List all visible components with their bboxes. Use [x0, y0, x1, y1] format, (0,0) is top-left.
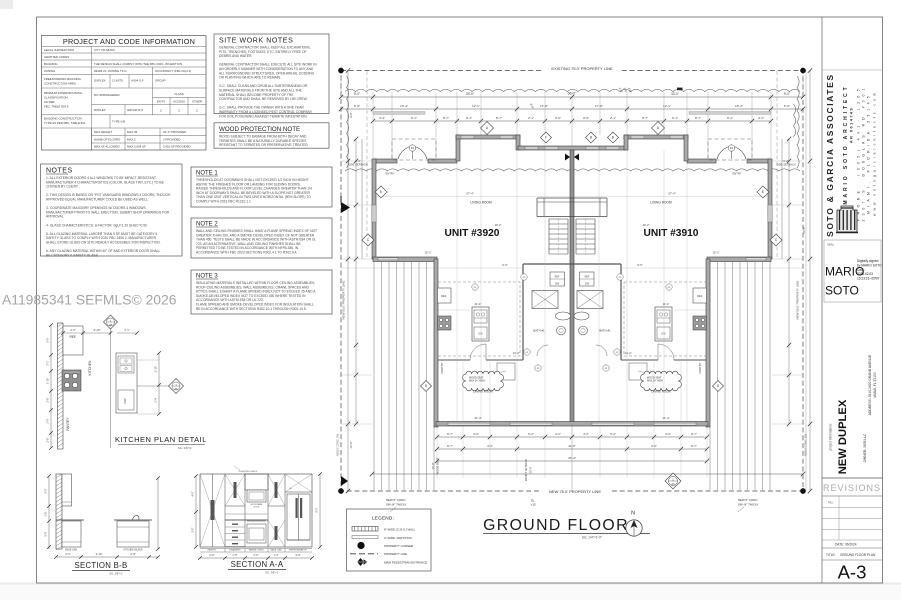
svg-text:REVISIONS: REVISIONS	[823, 483, 881, 493]
svg-text:12'-1": 12'-1"	[472, 104, 480, 108]
section bb bottom dim	[56, 556, 158, 558]
svg-text:CITY OF MIAMI: CITY OF MIAMI	[94, 48, 115, 52]
svg-text:PANTRY: PANTRY	[208, 549, 217, 552]
kitchen counter unit 3910	[655, 307, 672, 341]
kitchen detail right dim	[158, 353, 160, 414]
section aa range oven	[247, 524, 266, 543]
unit 3920 entry porch dashed outline	[392, 139, 436, 160]
svg-text:2'-1": 2'-1"	[46, 360, 50, 365]
grid marker C left	[362, 234, 374, 246]
svg-text:2025.02.03: 2025.02.03	[857, 272, 873, 276]
main pedestrian entrance arrow left	[341, 202, 350, 213]
grid marker C right	[770, 234, 782, 246]
svg-text:2'-1": 2'-1"	[528, 116, 534, 120]
svg-text:NEW 5' CONC.: NEW 5' CONC.	[386, 498, 407, 502]
svg-text:NOTE 1: NOTE 1	[196, 171, 218, 177]
svg-text:PHONE: (305) 441- 1365: PHONE: (305) 441- 1365	[857, 85, 861, 221]
svg-text:DW: DW	[123, 398, 127, 403]
stair landing rails	[537, 197, 607, 199]
landscape squiggle line mid	[345, 169, 800, 171]
svg-text:2'-0": 2'-0"	[70, 328, 75, 332]
svg-text:3'-6": 3'-6"	[555, 116, 561, 120]
revisions block	[822, 477, 883, 479]
svg-text:1'-6": 1'-6"	[44, 511, 48, 516]
svg-text:APPROVAL.: APPROVAL.	[46, 215, 65, 219]
property line boundary (dashed)	[341, 71, 803, 492]
svg-text:E: E	[380, 190, 382, 194]
svg-text:MAX 24" HIGH: MAX 24" HIGH	[647, 380, 663, 383]
svg-text:19'-2": 19'-2"	[494, 223, 501, 227]
unit 3920 south-west wall	[373, 257, 437, 262]
svg-text:14'-4": 14'-4"	[624, 351, 631, 355]
section aa counter and drawers	[225, 519, 268, 521]
svg-text:MAIN PEDESTRIAN ENTRANCE: MAIN PEDESTRIAN ENTRANCE	[384, 560, 427, 564]
svg-text:MINIMUM INTERIOR FINISH: MINIMUM INTERIOR FINISH	[44, 91, 82, 95]
side extension lines	[341, 160, 372, 162]
svg-text:8'-7": 8'-7"	[447, 444, 453, 448]
svg-text:BE IN ACCORDANCE WITH SECTIONS: BE IN ACCORDANCE WITH SECTIONS R302.10.1…	[196, 307, 307, 311]
svg-text:ADOPTED CODES: ADOPTED CODES	[44, 55, 69, 59]
REF DW appliance box right	[580, 272, 595, 286]
legend main pedestrian entrance	[357, 558, 364, 566]
REF DW appliance box left	[550, 272, 565, 286]
svg-text:C: C	[196, 109, 198, 113]
svg-text:15'-2": 15'-2"	[424, 251, 431, 255]
stove unit 3910	[693, 316, 707, 330]
svg-text:A-3: A-3	[838, 562, 867, 583]
svg-text:4'-2": 4'-2"	[583, 432, 589, 436]
svg-text:BUILDING CONSTRUCTION: BUILDING CONSTRUCTION	[44, 117, 82, 121]
svg-text:ACCORDANCE WITH FBC 2023 SECTI: ACCORDANCE WITH FBC 2023 SECTIONS R302.4…	[196, 251, 297, 255]
unit 3910 east exterior wall	[768, 159, 772, 259]
svg-text:REF: REF	[585, 275, 590, 278]
svg-text:NOTE 3: NOTE 3	[196, 274, 218, 280]
section bb left dim chain	[48, 476, 50, 549]
svg-text:18'-4": 18'-4"	[735, 104, 743, 108]
grid marker D left	[421, 381, 432, 392]
svg-text:8" WIDE (C.M.U.) WALL: 8" WIDE (C.M.U.) WALL	[384, 527, 416, 531]
patio dimension row 1	[437, 436, 707, 438]
svg-text:50'-0": 50'-0"	[802, 226, 806, 233]
svg-text:4'-0": 4'-0"	[473, 432, 479, 436]
patio dimension row 2	[437, 448, 707, 450]
small black marker on squiggle	[677, 88, 683, 91]
svg-text:66'-0": 66'-0"	[568, 92, 577, 96]
svg-text:MAX SF ALLOWED: MAX SF ALLOWED	[94, 145, 120, 149]
unit 3920 north wall with windows	[456, 135, 520, 139]
svg-text:19'-2": 19'-2"	[642, 223, 649, 227]
svg-text:RANGE OVEN: RANGE OVEN	[249, 549, 264, 552]
svg-text:9'-1": 9'-1"	[672, 116, 678, 120]
top dimension line row 3	[373, 120, 771, 122]
svg-text:KITCHEN: KITCHEN	[88, 360, 92, 375]
general notes box	[41, 164, 183, 256]
svg-text:GROUP: GROUP	[155, 79, 166, 83]
svg-text:SITE WORK NOTES: SITE WORK NOTES	[219, 38, 293, 45]
svg-text:8'-7": 8'-7"	[443, 116, 449, 120]
svg-text:4,904 S.F.: 4,904 S.F.	[131, 79, 144, 83]
svg-text:9'-8": 9'-8"	[349, 112, 353, 118]
section bb kitchen island	[117, 521, 149, 547]
squiggle vertical right	[797, 76, 799, 168]
svg-text:4'-0": 4'-0"	[665, 432, 671, 436]
svg-text:2'-4": 2'-4"	[154, 397, 158, 402]
section bb faucet	[133, 515, 139, 519]
kitchen detail dim line horizontal	[63, 332, 111, 334]
svg-text:2'-10": 2'-10"	[154, 366, 158, 373]
svg-text:MANUFACTURER PRIOR TO WALL ERE: MANUFACTURER PRIOR TO WALL ERECTION. SUB…	[46, 210, 170, 214]
scan shadow band below sheet	[0, 584, 901, 600]
section aa cabinet outline	[200, 474, 312, 547]
svg-text:2'-1": 2'-1"	[124, 328, 129, 332]
svg-text:2'-8": 2'-8"	[130, 552, 135, 556]
svg-text:OTHER: OTHER	[192, 99, 202, 103]
svg-text:AS PER: AS PER	[44, 100, 55, 104]
svg-text:2'-0": 2'-0"	[65, 552, 70, 556]
svg-text:SOTO: SOTO	[825, 284, 859, 298]
svg-text:MIAMI 21, ZONING T3-O: MIAMI 21, ZONING T3-O	[94, 69, 127, 73]
kitchen REF box unit 3920	[438, 288, 452, 303]
svg-text:ENTRY: ENTRY	[385, 172, 394, 176]
svg-text:9'-1": 9'-1"	[727, 116, 733, 120]
svg-text:DINING ROOM: DINING ROOM	[473, 390, 493, 394]
svg-text:21'-4": 21'-4"	[662, 416, 669, 420]
unit 3910 north step wall	[684, 135, 688, 161]
stair direction dashed lines	[558, 219, 560, 254]
svg-text:37'-4": 37'-4"	[466, 192, 474, 196]
kitchen counter crossed left	[532, 291, 558, 309]
svg-text:8'-0": 8'-0"	[316, 507, 319, 512]
svg-text:EXITS: EXITS	[157, 99, 165, 103]
svg-text:4'-0": 4'-0"	[192, 491, 195, 496]
svg-text:GROUND FLOOR: GROUND FLOOR	[483, 517, 629, 534]
bottom extension lines	[436, 426, 438, 478]
architect logo	[836, 206, 858, 233]
svg-text:15:23:16 -05'00': 15:23:16 -05'00'	[857, 277, 880, 281]
unit 3920 entry wall segments	[373, 159, 397, 163]
svg-text:CONTRACTOR AND SHALL BE REMOVE: CONTRACTOR AND SHALL BE REMOVED BY HIS C…	[219, 97, 308, 101]
grid marker E right	[757, 186, 769, 198]
svg-text:4'-4": 4'-4"	[758, 116, 764, 120]
svg-text:4'-2": 4'-2"	[555, 432, 561, 436]
note 2 box	[191, 218, 332, 258]
svg-text:MAX 2,604 SF: MAX 2,604 SF	[127, 145, 146, 149]
svg-text:NEW DUPLEX: NEW DUPLEX	[837, 399, 849, 474]
property line label bottom	[540, 487, 610, 495]
patio dimension row 4	[372, 473, 803, 475]
property corner dots	[338, 68, 343, 73]
svg-text:15'-2": 15'-2"	[712, 251, 719, 255]
svg-text:MIAMI, FLORIDA 33145: MIAMI, FLORIDA 33145	[867, 92, 871, 214]
svg-text:HOOD: HOOD	[254, 507, 260, 509]
interior partition across center	[523, 263, 621, 265]
unit 3910 north wall with windows	[624, 135, 688, 139]
svg-text:NOTE 2: NOTE 2	[196, 222, 218, 228]
door tag D1 left	[409, 145, 415, 151]
sheet marker diamond circle	[665, 473, 681, 489]
svg-text:FOR SOIL POISONING AGAINST TER: FOR SOIL POISONING AGAINST TERMITE INFES…	[219, 114, 308, 118]
legend partition swatch	[352, 536, 378, 539]
svg-text:PANTRY: PANTRY	[66, 417, 70, 431]
wood protection note box	[214, 123, 329, 148]
interior partition bath west	[522, 264, 524, 360]
svg-text:DW: DW	[661, 333, 666, 336]
dining room callout 3920	[463, 371, 504, 391]
svg-text:3'-0": 3'-0"	[44, 488, 48, 493]
svg-text:FRONT SETBACK: FRONT SETBACK	[524, 459, 528, 482]
kitchen zone dashed rect right	[624, 282, 706, 356]
svg-text:3'-6": 3'-6"	[583, 116, 589, 120]
project and code information table	[42, 36, 207, 151]
svg-text:REF.: REF.	[441, 294, 447, 298]
scan artifact top-left corner	[0, 0, 13, 9]
svg-text:NEW 50.0' PROPERTY LINE: NEW 50.0' PROPERTY LINE	[796, 281, 800, 320]
svg-text:No.: No.	[828, 501, 834, 505]
svg-text:KITCHEN ISLAND: KITCHEN ISLAND	[123, 549, 142, 552]
kitchen counter unit 3920	[472, 307, 489, 341]
svg-text:SECTION A-A: SECTION A-A	[231, 560, 284, 569]
svg-text:CONSTRUCTION AREA: CONSTRUCTION AREA	[44, 82, 76, 86]
svg-text:2,452 SF PROVIDED: 2,452 SF PROVIDED	[163, 145, 191, 149]
kitchen zone dashed rect left	[438, 282, 520, 356]
svg-text:CLASSIFICATION: CLASSIFICATION	[44, 96, 68, 100]
kitchen detail REF box	[63, 326, 83, 355]
svg-text:9'-6": 9'-6"	[502, 263, 508, 267]
svg-text:NEW 5' CONC. SW: NEW 5' CONC. SW	[337, 433, 340, 456]
svg-text:17'-8": 17'-8"	[595, 104, 603, 108]
svg-text:9'-0": 9'-0"	[354, 92, 360, 96]
svg-text:WOOD DECK: WOOD DECK	[436, 457, 440, 474]
svg-text:12'-0": 12'-0"	[431, 463, 435, 470]
unit 3920 west exterior wall	[372, 159, 376, 259]
svg-text:BE CATEGORY II SAFETY GLASS.: BE CATEGORY II SAFETY GLASS.	[46, 253, 99, 257]
svg-text:8'-7": 8'-7"	[691, 432, 697, 436]
svg-text:37'-4": 37'-4"	[668, 192, 676, 196]
svg-text:DUPLEX: DUPLEX	[94, 79, 106, 83]
svg-text:4'-4": 4'-4"	[379, 116, 385, 120]
svg-text:Digitally signed: Digitally signed	[857, 259, 879, 263]
svg-text:F: F	[545, 136, 547, 140]
svg-text:REFRIGERATOR: REFRIGERATOR	[289, 549, 307, 552]
svg-text:LEGEND:: LEGEND:	[372, 516, 394, 521]
bath sink left	[557, 326, 566, 335]
side setback dashed line left	[366, 71, 368, 259]
svg-text:SHALL STORE GLASS ON SITE READ: SHALL STORE GLASS ON SITE READILY ACCESS…	[46, 241, 161, 245]
unit 3920 dining west wall	[434, 259, 438, 427]
toilet left	[556, 312, 571, 320]
unit 3920 entry double door arcs	[398, 146, 412, 159]
svg-text:AR 0014749: AR 0014749	[850, 107, 854, 143]
squiggle vertical left	[347, 76, 349, 168]
svg-text:SIDE SETBACK: SIDE SETBACK	[776, 163, 796, 167]
svg-text:8'-7": 8'-7"	[691, 444, 697, 448]
svg-text:SECTION B-B: SECTION B-B	[74, 561, 127, 570]
interior door arcs at partitions	[470, 344, 486, 360]
svg-text:EXISTING 75.0' PROPERTY LINE: EXISTING 75.0' PROPERTY LINE	[551, 66, 613, 71]
grid marker B center	[586, 132, 597, 143]
svg-text:GROUP R-2: GROUP R-2	[127, 108, 143, 112]
svg-text:N: N	[631, 511, 635, 517]
svg-text:NEW 5' CONC.: NEW 5' CONC.	[738, 498, 759, 502]
svg-text:SOTO & GARCIA ASSOCIATES: SOTO & GARCIA ASSOCIATES	[825, 73, 835, 237]
svg-text:MAX 24" HIGH: MAX 24" HIGH	[469, 380, 485, 383]
svg-text:FREESTANDING BUILDING: FREESTANDING BUILDING	[44, 77, 82, 81]
svg-text:8'-7": 8'-7"	[447, 432, 453, 436]
interior partition bath east	[620, 264, 622, 360]
svg-text:BASE CAB: BASE CAB	[271, 549, 282, 552]
svg-text:LIVING ROOM: LIVING ROOM	[650, 201, 672, 205]
extra dim vertical right	[805, 71, 807, 492]
door tag D1 right	[728, 145, 734, 151]
svg-text:PROPERTY LINE: PROPERTY LINE	[384, 552, 407, 556]
svg-text:9'-2": 9'-2"	[528, 432, 534, 436]
svg-text:MAX HEIGHT: MAX HEIGHT	[94, 130, 112, 134]
svg-text:COMPLY WITH 2023 FBC R1210.1.1: COMPLY WITH 2023 FBC R1210.1.1.	[196, 200, 252, 204]
laundry boxes left	[497, 363, 515, 380]
svg-text:I.M.: I.M.	[289, 488, 293, 490]
svg-text:ACCESS: ACCESS	[173, 99, 185, 103]
svg-text:SW (4" THICK): SW (4" THICK)	[386, 503, 406, 507]
svg-text:UNIT #3910: UNIT #3910	[644, 228, 699, 239]
svg-text:BUILDING: BUILDING	[44, 62, 58, 66]
svg-text:SW (4" THICK): SW (4" THICK)	[738, 503, 758, 507]
svg-text:13'-8": 13'-8"	[349, 441, 353, 448]
canopy band left entry	[373, 112, 425, 115]
window W1 west wall	[372, 205, 376, 222]
svg-text:PROPERTY CORNER: PROPERTY CORNER	[384, 544, 413, 548]
svg-text:9'-6": 9'-6"	[637, 263, 643, 267]
svg-text:APPROVED EQUAL MANUFACTURER CO: APPROVED EQUAL MANUFACTURER COULD BE USE…	[46, 198, 149, 202]
kitchen detail dishwasher	[118, 390, 134, 410]
toilet right	[574, 312, 589, 320]
svg-text:A11985341 SEFMLS© 2026: A11985341 SEFMLS© 2026	[2, 292, 177, 308]
svg-text:2'-0": 2'-0"	[46, 418, 50, 423]
svg-text:SG: 3/8"=1': SG: 3/8"=1'	[178, 446, 193, 450]
svg-text:SG: 3/8"=1': SG: 3/8"=1'	[109, 572, 123, 576]
svg-text:REF.: REF.	[70, 335, 77, 339]
svg-text:Date:: Date:	[857, 268, 865, 272]
svg-text:ADDRESS: 3910-3920 GRAND AVEN: ADDRESS: 3910-3920 GRAND AVENUE	[868, 354, 872, 415]
section aa bottom dim	[200, 557, 312, 559]
grid marker B right	[608, 132, 619, 143]
svg-text:DINING ROOM: DINING ROOM	[651, 390, 671, 394]
section bb base cabinet	[62, 521, 81, 547]
svg-text:12'-1": 12'-1"	[663, 104, 671, 108]
top dimension line row 2	[341, 108, 803, 110]
section aa dividers	[224, 474, 226, 547]
svg-text:2'-5": 2'-5"	[232, 553, 237, 557]
svg-text:8'-7": 8'-7"	[642, 116, 648, 120]
svg-text:OWNER: 3905 LLC: OWNER: 3905 LLC	[863, 433, 867, 462]
svg-text:BATH #1: BATH #1	[533, 329, 545, 333]
svg-text:REF.: REF.	[697, 294, 703, 298]
svg-text:PANTRY: PANTRY	[698, 362, 702, 373]
svg-text:44'-4": 44'-4"	[568, 456, 576, 460]
svg-text:2 PROVIDED: 2 PROVIDED	[163, 137, 181, 141]
svg-text:TYPE V-B: TYPE V-B	[112, 120, 125, 124]
section aa refrigerator	[285, 491, 312, 493]
property line label top	[543, 64, 621, 72]
landscape squiggle line upper	[345, 89, 800, 91]
svg-text:3'-0": 3'-0"	[46, 337, 50, 342]
north arrow	[626, 520, 642, 536]
svg-text:A5: A5	[671, 482, 675, 486]
patio dimension row 3	[437, 460, 707, 462]
dining interior reference lines	[462, 362, 464, 421]
svg-text:BASE CAB: BASE CAB	[65, 549, 77, 552]
svg-text:+15: +15	[530, 502, 535, 506]
section aa pantry X doors	[200, 474, 225, 547]
svg-text:NO SPRINKLERED: NO SPRINKLERED	[94, 93, 120, 97]
svg-text:E: E	[762, 190, 764, 194]
stair treads left flight	[548, 219, 550, 254]
svg-text:MAX 25: MAX 25	[127, 130, 138, 134]
svg-text:MAX 2: MAX 2	[127, 137, 136, 141]
title block strip	[821, 17, 823, 583]
svg-text:TITLE:: TITLE:	[826, 553, 836, 557]
grid marker E left	[375, 186, 387, 198]
svg-text:GROUND FLOOR PLAN: GROUND FLOOR PLAN	[840, 553, 876, 557]
unit 3910 entry porch dashed outline	[708, 139, 752, 160]
circled keynote tags	[521, 274, 527, 280]
squiggle right yard	[794, 104, 796, 137]
unit entrance arrows at party wall	[565, 154, 570, 161]
svg-text:KITCHEN PLAN DETAIL: KITCHEN PLAN DETAIL	[115, 435, 207, 444]
side setback dashed line right	[776, 71, 778, 259]
svg-text:14'-4": 14'-4"	[512, 351, 519, 355]
grid marker A left	[481, 122, 494, 135]
grid marker A right	[652, 122, 665, 135]
interior partition south of baths	[438, 359, 470, 361]
svg-text:B: B	[590, 136, 592, 140]
svg-text:PROJECT AND CODE INFORMATION: PROJECT AND CODE INFORMATION	[63, 37, 195, 46]
svg-text:SG: 3/8"=1': SG: 3/8"=1'	[265, 571, 279, 575]
unit 3920 north step wall	[456, 135, 460, 161]
window W1 east wall	[768, 205, 772, 222]
svg-text:2'-6": 2'-6"	[253, 553, 258, 557]
top dimension line row 1	[341, 96, 803, 98]
svg-text:www.sotogarciarchitects.com: www.sotogarciarchitects.com	[873, 90, 877, 216]
section aa left dim	[195, 476, 197, 547]
svg-text:MARIO SOTO ARCHITECT: MARIO SOTO ARCHITECT	[843, 84, 849, 204]
svg-text:SIDE SETBACK: SIDE SETBACK	[348, 163, 368, 167]
section aa base cab X	[268, 520, 285, 547]
kitchen detail wall hatched	[58, 323, 64, 449]
kitchen detail centerline	[110, 317, 112, 448]
svg-text:20'-0" PROVIDED: 20'-0" PROVIDED	[163, 130, 186, 134]
svg-text:ZONING: ZONING	[44, 69, 56, 73]
party wall between units	[570, 150, 574, 424]
center north wall with windows	[518, 146, 626, 150]
interior reference lines horizontal	[376, 196, 570, 198]
svg-text:17'-8": 17'-8"	[540, 104, 548, 108]
site work notes box	[214, 34, 329, 114]
svg-text:2 UNITS: 2 UNITS	[112, 79, 123, 83]
svg-text:TYPE AS PER FBC, TABLE 601: TYPE AS PER FBC, TABLE 601	[44, 121, 86, 125]
svg-text:WOOD PROTECTION NOTE: WOOD PROTECTION NOTE	[219, 126, 300, 133]
svg-text:3'-0": 3'-0"	[44, 531, 48, 536]
svg-text:project information:: project information:	[829, 423, 833, 450]
svg-text:8'-7": 8'-7"	[695, 116, 701, 120]
svg-text:9'-1": 9'-1"	[411, 116, 417, 120]
section aa upper cabinets X	[225, 474, 245, 506]
concrete driveway strip left	[373, 262, 375, 490]
svg-text:NEW 50.0' PROPERTY LINE: NEW 50.0' PROPERTY LINE	[342, 281, 346, 320]
left dimension chain	[347, 71, 349, 492]
svg-text:13'-4": 13'-4"	[400, 104, 408, 108]
window in south-east wall	[746, 258, 766, 261]
svg-text:9'-1": 9'-1"	[466, 116, 472, 120]
